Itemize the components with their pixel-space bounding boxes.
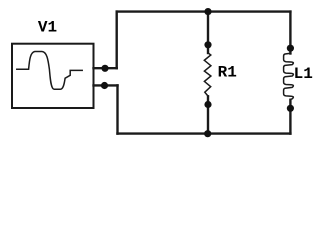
resistor R1 zigzag: [204, 53, 211, 97]
svg-text:V1: V1: [38, 18, 57, 36]
sine wave symbol of V1: [17, 52, 82, 90]
wire: left-bottom vertical: [116, 85, 118, 133]
node dot: R1 top pin: [204, 41, 211, 48]
wire: L1 branch bottom lead: [289, 100, 291, 134]
wire: top horizontal: [117, 10, 291, 12]
wire: L1 branch top lead: [289, 12, 291, 54]
wire: bottom terminal stub from V1: [94, 84, 118, 86]
wire: top terminal stub from V1: [94, 67, 117, 69]
voltage source V1 box: [12, 44, 94, 108]
wire: R1 branch top lead: [207, 12, 209, 53]
svg-text:R1: R1: [218, 64, 237, 82]
node dot: R1 bottom pin: [204, 101, 211, 108]
wire: bottom horizontal: [118, 132, 291, 134]
node dot: V1 top terminal: [101, 65, 108, 72]
svg-text:L1: L1: [294, 65, 313, 83]
inductor L1 coil: [284, 53, 294, 99]
node dot: V1 bottom terminal: [101, 82, 108, 89]
wire: R1 branch bottom lead: [207, 96, 209, 133]
node dot: L1 top pin: [287, 45, 294, 52]
node dot: top junction at R1: [204, 8, 211, 15]
wire: left-top vertical: [115, 12, 117, 69]
node dot: L1 bottom pin: [287, 105, 294, 112]
node dot: bottom junction at R1: [204, 130, 211, 137]
